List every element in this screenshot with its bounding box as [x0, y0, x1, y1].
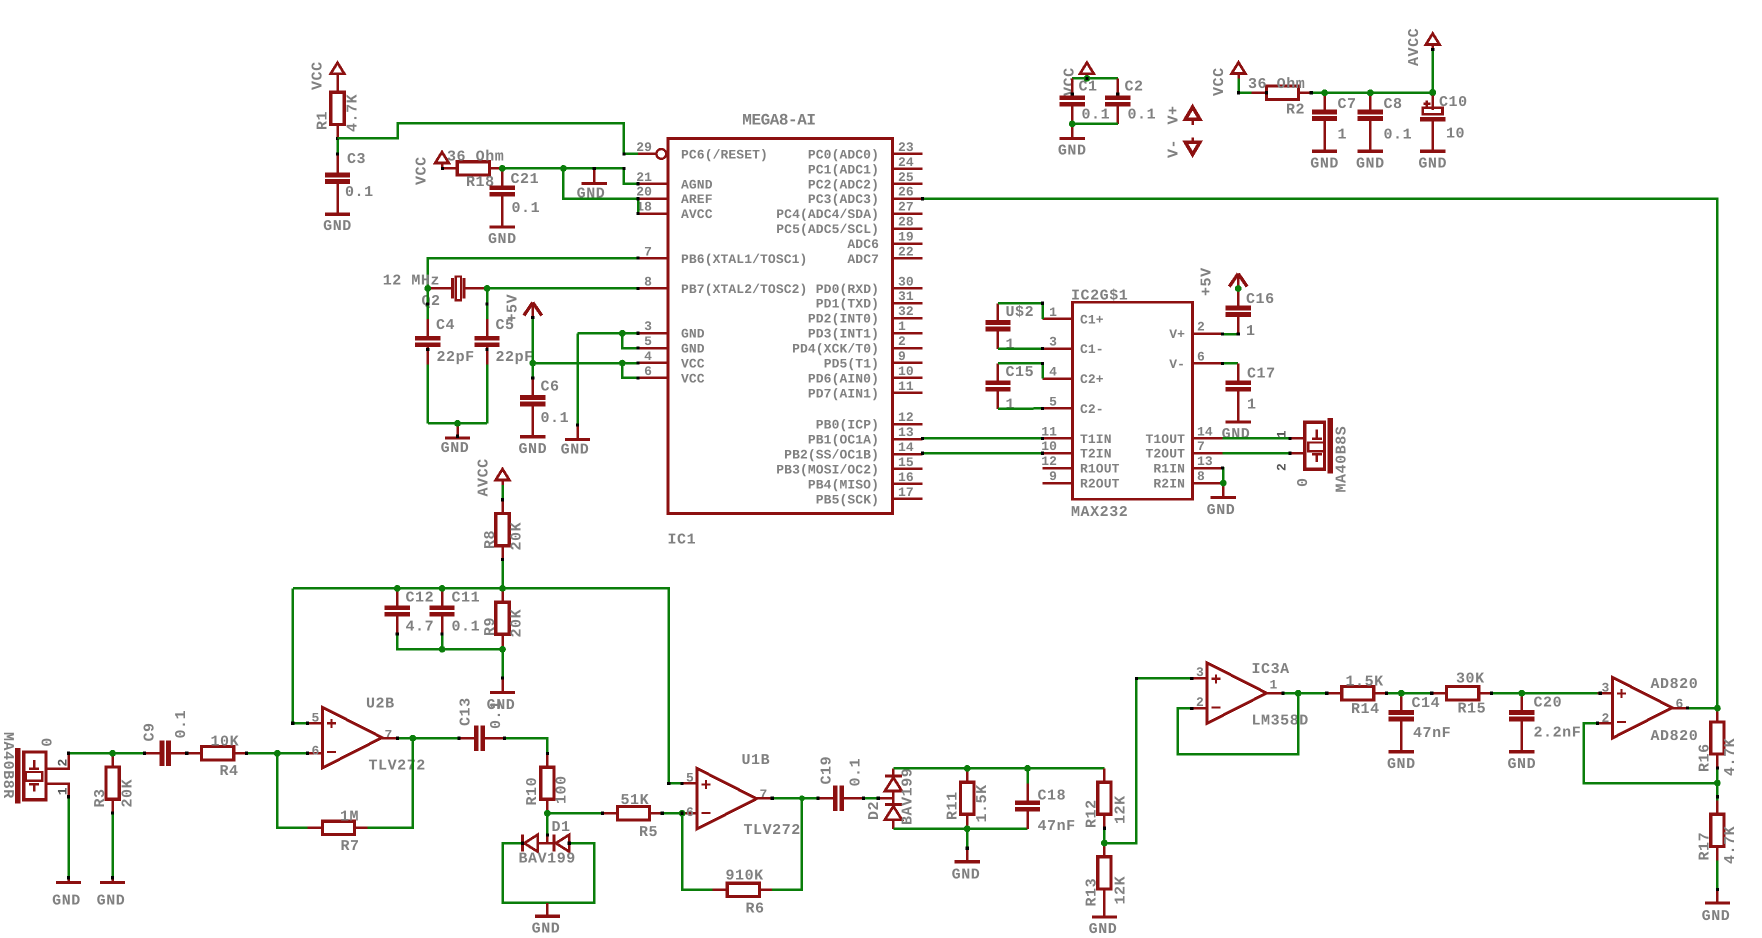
transducer SP2 MA40B8R	[24, 752, 46, 800]
transducer SP1 MA40B8S	[1305, 422, 1325, 469]
svg-text:12: 12	[1041, 454, 1057, 469]
svg-text:Q2: Q2	[422, 293, 441, 310]
wire T2OUT to transducer pin2	[1222, 452, 1304, 455]
resistor R5 51K	[603, 812, 618, 815]
svg-text:R2IN: R2IN	[1153, 477, 1185, 492]
svg-text:5: 5	[644, 334, 652, 349]
svg-text:IC2G$1: IC2G$1	[1071, 288, 1128, 305]
svg-text:22: 22	[898, 244, 914, 259]
junction node	[274, 750, 281, 757]
junction node	[619, 360, 626, 367]
junction tick	[1190, 677, 1193, 680]
D1 center lead	[538, 842, 555, 845]
wire R10 junction to R5	[547, 812, 602, 815]
junction tick	[521, 842, 524, 845]
svg-text:9: 9	[898, 349, 906, 364]
capacitor C17	[1237, 363, 1240, 380]
svg-text:0.1: 0.1	[541, 410, 570, 427]
junction node U2B output	[409, 735, 416, 742]
wire AREF net	[502, 168, 638, 183]
resistor R13 12K	[1103, 843, 1106, 857]
svg-text:15: 15	[898, 455, 914, 470]
junction node crystal left	[424, 285, 431, 292]
junction node	[544, 810, 551, 817]
svg-text:C21: C21	[511, 171, 540, 188]
junction tick	[1686, 707, 1689, 710]
junction tick	[1431, 48, 1434, 51]
wire R4 to U2B minus	[247, 752, 308, 755]
crystal Q2	[451, 278, 454, 298]
junction tick	[111, 812, 114, 815]
svg-text:14: 14	[1197, 424, 1213, 439]
wire VCC rail to pin4	[533, 362, 638, 365]
junction tick	[681, 782, 684, 785]
junction tick	[1041, 452, 1044, 455]
junction tick	[185, 752, 188, 755]
ground GND below R17	[1716, 890, 1719, 902]
junction tick	[441, 167, 444, 170]
svg-text:11: 11	[898, 379, 914, 394]
junction tick	[503, 737, 506, 740]
svg-text:C19: C19	[819, 756, 836, 785]
junction node	[499, 646, 506, 653]
svg-text:1: 1	[1338, 127, 1348, 144]
junction tick	[501, 498, 504, 501]
svg-text:PB5(SCK): PB5(SCK)	[816, 492, 879, 507]
wire pin4 to pin6	[622, 363, 638, 378]
junction node C20 top	[1518, 690, 1525, 697]
svg-text:910K: 910K	[726, 868, 764, 885]
junction node	[964, 825, 971, 832]
wire R14 to C14 node	[1387, 692, 1432, 695]
svg-text:C17: C17	[1247, 366, 1276, 383]
junction tick	[143, 752, 146, 755]
wire C6 top lead	[532, 363, 535, 378]
junction tick	[1041, 302, 1044, 305]
svg-text:12K: 12K	[1113, 795, 1130, 824]
wire R3 to gnd	[111, 813, 114, 878]
junction node U1B output	[799, 795, 805, 801]
wire XTAL2 net	[487, 287, 638, 290]
svg-text:12K: 12K	[1113, 876, 1130, 905]
svg-text:5: 5	[686, 771, 694, 786]
diode D1b BAV199	[553, 835, 556, 852]
junction tick	[636, 182, 639, 185]
ground GND below R13	[1103, 903, 1106, 916]
svg-text:17: 17	[898, 485, 914, 500]
svg-text:13: 13	[898, 425, 914, 440]
svg-text:29: 29	[636, 140, 652, 155]
svg-text:BAV199: BAV199	[900, 768, 917, 825]
IC1 pin 31 PD1(TXD)	[893, 302, 923, 305]
junction node GND pin3	[619, 330, 626, 337]
svg-text:IC3A: IC3A	[1252, 661, 1290, 678]
svg-text:9: 9	[1049, 469, 1057, 484]
D2 center lead	[892, 791, 895, 803]
junction tick	[1430, 692, 1433, 695]
IC3A pin3 stub	[1192, 677, 1207, 680]
junction tick	[1281, 692, 1284, 695]
svg-text:R8: R8	[482, 530, 499, 549]
junction tick	[1041, 362, 1044, 365]
svg-text:4: 4	[1049, 365, 1057, 380]
junction tick	[1325, 692, 1328, 695]
svg-text:C2-: C2-	[1080, 402, 1104, 417]
junction tick	[1237, 91, 1240, 94]
junction node AREF branch	[561, 166, 567, 172]
U1B output lead	[757, 797, 772, 800]
svg-text:BAV199: BAV199	[519, 851, 576, 868]
IC2 pin 13 R1IN	[1193, 467, 1223, 470]
wire ADC3 to AD820 output	[922, 199, 1717, 708]
svg-text:R9: R9	[482, 617, 499, 636]
svg-text:GND: GND	[561, 442, 590, 459]
svg-text:1: 1	[898, 319, 906, 334]
IC1 pin 18 AVCC	[638, 212, 668, 215]
svg-text:T2IN: T2IN	[1080, 447, 1112, 462]
D2 top lead	[892, 768, 895, 774]
junction node	[1235, 285, 1242, 292]
wire C15 top to pin4	[998, 363, 1043, 378]
junction tick	[1103, 827, 1106, 830]
IC3A pin2 stub	[1192, 707, 1207, 710]
junction node	[499, 165, 506, 172]
wire XTAL1 net	[428, 258, 638, 288]
svg-text:R15: R15	[1458, 701, 1487, 718]
svg-text:C4: C4	[436, 317, 455, 334]
wire pin6 V- to C17	[1222, 362, 1238, 365]
junction node	[1220, 480, 1227, 487]
svg-text:10: 10	[1446, 126, 1465, 143]
svg-text:23: 23	[898, 140, 914, 155]
power flag AVCC top right	[1426, 34, 1440, 45]
svg-text:R10: R10	[524, 777, 541, 806]
wire R11 to gnd	[966, 829, 969, 848]
svg-text:C18: C18	[1038, 788, 1067, 805]
capacitor C1	[1071, 78, 1074, 95]
svg-text:C6: C6	[541, 379, 560, 396]
svg-text:16: 16	[898, 470, 914, 485]
IC1 pin 2 PD4(XCK/T0)	[893, 347, 923, 350]
svg-text:32: 32	[898, 304, 914, 319]
junction tick	[1385, 692, 1388, 695]
capacitor C9	[145, 752, 160, 755]
svg-text:6: 6	[1197, 349, 1205, 364]
wire R6 to output	[772, 798, 802, 890]
IC1 pin 9 PD5(T1)	[893, 362, 923, 365]
junction tick	[531, 377, 534, 380]
svg-text:MA40B8S: MA40B8S	[1334, 426, 1351, 493]
junction tick	[67, 752, 70, 755]
junction tick	[601, 812, 604, 815]
wire R15 to C20 node	[1492, 692, 1601, 695]
IC1 pin 16 PB4(MISO)	[893, 483, 923, 486]
capacitor C18	[1026, 783, 1029, 800]
svg-text:30: 30	[898, 274, 914, 289]
svg-text:8: 8	[644, 274, 652, 289]
junction node crystal gnd	[454, 420, 461, 427]
bias gnd rail	[397, 634, 502, 649]
junction node	[619, 330, 626, 337]
svg-text:100: 100	[554, 775, 571, 804]
junction node AD820 output	[1714, 705, 1721, 712]
svg-text:C1-: C1-	[1080, 342, 1104, 357]
junction tick	[921, 452, 924, 455]
junction tick	[1599, 692, 1602, 695]
wire T1OUT to transducer pin1	[1222, 437, 1304, 440]
IC1 pin 21 AGND	[638, 183, 668, 186]
wire crystal gnd rail	[428, 422, 487, 425]
junction node	[560, 165, 567, 172]
svg-text:PD4(XCK/T0): PD4(XCK/T0)	[792, 342, 879, 357]
resistor R8 20K	[501, 500, 504, 514]
junction tick	[111, 876, 114, 879]
svg-text:GND: GND	[1356, 155, 1385, 172]
capacitor C3	[336, 156, 339, 173]
svg-text:VCC: VCC	[310, 61, 327, 90]
wire R16 to junction	[1716, 768, 1719, 783]
ground flag GND near AGND	[593, 168, 596, 182]
junction tick	[1085, 77, 1088, 80]
IC2 MAX232 box	[1073, 302, 1193, 499]
wire C15 bottom to pin5	[998, 407, 1043, 410]
AD820 pin3 stub	[1598, 692, 1613, 695]
IC3A output lead	[1268, 692, 1283, 695]
diode D1a BAV199	[521, 835, 524, 852]
diode D2a BAV199	[885, 774, 902, 777]
svg-text:3: 3	[1049, 335, 1057, 350]
wire SP2 pin1 to gnd	[67, 797, 70, 878]
junction node C8 top	[1367, 89, 1374, 96]
wire VCC C1 C2 top	[1072, 77, 1118, 80]
junction tick	[568, 842, 571, 845]
op-amp IC4 AD820	[1613, 677, 1673, 738]
junction node C6 top	[529, 360, 536, 367]
svg-text:D2: D2	[866, 801, 883, 820]
junction node bias C11	[439, 585, 446, 592]
svg-text:12: 12	[898, 410, 914, 425]
junction node	[424, 285, 431, 292]
junction node	[1714, 705, 1721, 712]
wire AVCC to R8	[501, 485, 504, 500]
ground GND below C20	[1521, 738, 1524, 752]
junction node C7 top	[1321, 89, 1328, 96]
svg-text:V-: V-	[1169, 357, 1185, 372]
svg-text:D1: D1	[552, 819, 571, 836]
svg-text:AVCC: AVCC	[1406, 28, 1423, 66]
IC1 pin 26 PC3(ADC3)	[893, 197, 923, 200]
svg-text:R14: R14	[1351, 701, 1380, 718]
svg-text:6: 6	[312, 744, 320, 759]
wire D1 gnd loop	[503, 843, 594, 903]
junction tick	[636, 376, 639, 379]
IC1 pin 8 PB7(XTAL2/TOSC2)	[638, 287, 668, 290]
junction tick	[441, 632, 444, 635]
IC1 pin 12 PB0(ICP)	[893, 423, 923, 426]
ground GND below R3	[111, 878, 114, 881]
svg-text:4.7K: 4.7K	[1722, 738, 1739, 776]
svg-text:C12: C12	[406, 590, 435, 607]
SP2 pin1 lead	[46, 784, 69, 797]
capacitor C4	[427, 319, 430, 336]
svg-text:0.1: 0.1	[1082, 107, 1111, 124]
IC2 pin 2 V+	[1193, 332, 1223, 335]
junction tick	[1596, 722, 1599, 725]
wire AD820 output to R16	[1687, 707, 1717, 710]
svg-text:R16: R16	[1697, 743, 1714, 772]
resistor R16 4.7K	[1716, 708, 1719, 722]
junction node U1B minus	[679, 810, 686, 817]
svg-text:GND: GND	[1058, 143, 1087, 160]
svg-text:R13: R13	[1084, 878, 1101, 907]
IC2 pin 10 T2IN	[1043, 452, 1073, 455]
IC1 pin 23 PC0(ADC0)	[893, 153, 923, 156]
svg-text:C16: C16	[1246, 291, 1275, 308]
capacitor C11	[441, 588, 444, 605]
svg-text:R5: R5	[639, 824, 658, 841]
ground GND below C6	[532, 423, 535, 437]
svg-text:4.7K: 4.7K	[1722, 826, 1739, 864]
resistor R1	[336, 79, 339, 93]
IC1 pin 19 ADC6	[893, 242, 923, 245]
IC2 pin 8 R2IN	[1193, 482, 1223, 485]
wire clamp top rail	[893, 767, 1104, 770]
junction tick	[1221, 467, 1224, 470]
svg-text:0.1: 0.1	[345, 184, 374, 201]
svg-text:R2OUT: R2OUT	[1080, 477, 1120, 492]
junction tick	[291, 722, 294, 725]
svg-text:PC6(/RESET): PC6(/RESET)	[681, 147, 768, 162]
AD820 pin2 stub	[1598, 722, 1613, 725]
op-amp U1B	[697, 768, 757, 829]
junction tick	[576, 423, 579, 426]
svg-text:R2: R2	[1286, 102, 1305, 119]
junction node gnd rail R9	[499, 646, 506, 653]
junction node R11 bottom	[964, 825, 971, 832]
junction node R3 top	[109, 750, 116, 757]
junction tick	[636, 287, 639, 290]
svg-text:3: 3	[1602, 681, 1610, 696]
svg-text:1M: 1M	[340, 809, 359, 826]
U1B pin5 stub	[682, 782, 697, 785]
wire R12 to R13 junction	[1103, 828, 1106, 843]
junction node R11 top	[964, 765, 971, 772]
junction tick	[531, 316, 534, 319]
svg-text:U2B: U2B	[366, 696, 395, 713]
junction node	[1398, 690, 1405, 697]
svg-text:C10: C10	[1439, 94, 1468, 111]
power flag AVCC above R8	[496, 469, 510, 480]
junction tick	[1041, 407, 1044, 410]
ground GND below C3	[336, 200, 339, 214]
wire PB2 to T2IN	[922, 452, 1042, 455]
wire VCC to R2	[1239, 78, 1252, 92]
svg-text:0.1: 0.1	[512, 200, 541, 217]
junction node pin8 gnd	[1220, 480, 1227, 487]
svg-text:PC2(ADC2): PC2(ADC2)	[808, 177, 879, 192]
capacitor C12	[396, 588, 399, 605]
junction tick	[1310, 91, 1313, 94]
svg-text:V-: V-	[1166, 139, 1183, 158]
junction node R12 bottom	[1101, 840, 1108, 847]
junction tick	[486, 302, 489, 305]
crystal Q2 leads	[428, 287, 452, 290]
junction tick	[1221, 362, 1224, 365]
svg-text:1: 1	[56, 787, 71, 795]
svg-text:GND: GND	[577, 186, 606, 203]
IC2 pin 1 C1+	[1043, 318, 1073, 321]
svg-text:GND: GND	[681, 327, 705, 342]
svg-text:PD2(INT0): PD2(INT0)	[808, 312, 879, 327]
power flag VCC at R2	[1232, 62, 1246, 73]
wire U$2 top to pin1	[998, 303, 1043, 319]
junction tick	[636, 347, 639, 350]
junction tick	[862, 797, 865, 800]
junction node C1 bottom	[1069, 121, 1076, 128]
svg-text:R6: R6	[746, 901, 765, 918]
svg-text:36 Ohm: 36 Ohm	[447, 149, 504, 166]
svg-text:36 Ohm: 36 Ohm	[1248, 76, 1305, 93]
svg-text:1: 1	[1246, 323, 1256, 340]
ground GND below SP2	[67, 878, 70, 881]
svg-text:LM358D: LM358D	[1252, 713, 1309, 730]
capacitor C16	[1237, 289, 1240, 306]
svg-text:GND: GND	[487, 697, 516, 714]
junction node VCC pin4	[619, 360, 626, 367]
junction tick	[622, 152, 625, 155]
wire crystal to C5	[486, 288, 489, 319]
svg-text:4: 4	[644, 349, 652, 364]
svg-text:+5V: +5V	[505, 294, 522, 323]
resistor R3	[111, 753, 114, 767]
wire +5V to VCC rail	[532, 318, 535, 364]
capacitor C6	[532, 378, 535, 395]
svg-text:7: 7	[760, 787, 768, 802]
svg-text:R17: R17	[1697, 832, 1714, 861]
ground GND below C1	[1071, 125, 1074, 139]
svg-text:VCC: VCC	[681, 356, 705, 371]
svg-text:PB4(MISO): PB4(MISO)	[808, 477, 879, 492]
capacitor C8	[1369, 93, 1372, 110]
svg-text:22pF: 22pF	[437, 349, 475, 366]
junction node	[454, 420, 461, 427]
op-amp U2B	[323, 707, 383, 768]
resistor R10 100	[546, 753, 549, 767]
capacitor C13	[459, 737, 474, 740]
IC2 pin 11 T1IN	[1043, 437, 1073, 440]
junction tick	[306, 722, 309, 725]
junction tick	[1716, 888, 1719, 891]
IC U1 MEGA8-AI box	[668, 139, 893, 514]
junction tick	[593, 167, 596, 170]
resistor R2 36 Ohm	[1252, 92, 1267, 95]
IC2 pin 7 T2OUT	[1193, 452, 1223, 455]
svg-text:10: 10	[898, 364, 914, 379]
ground GND below C17	[1237, 409, 1240, 422]
wire minus to R7	[277, 753, 307, 828]
svg-text:VCC: VCC	[414, 156, 431, 185]
svg-text:R1: R1	[315, 111, 332, 130]
junction tick	[921, 197, 924, 200]
wire pin20 to pin18	[637, 199, 640, 214]
wire C19 to D2	[864, 797, 879, 800]
svg-text:GND: GND	[1387, 756, 1416, 773]
svg-text:14: 14	[898, 440, 914, 455]
junction tick	[1716, 795, 1719, 798]
junction node	[1321, 89, 1328, 96]
junction tick	[501, 558, 504, 561]
svg-text:20K: 20K	[120, 779, 137, 808]
